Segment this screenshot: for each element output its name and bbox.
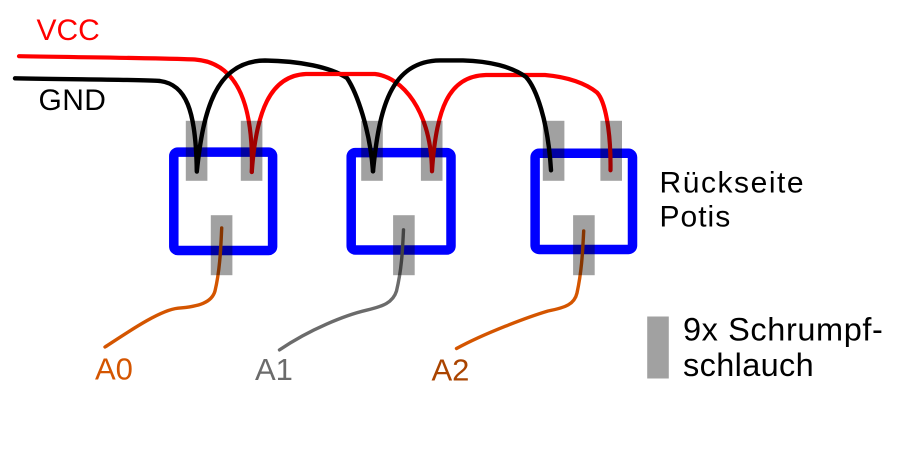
heat shrink P1 right pin <box>241 121 263 181</box>
heat shrink P1 wiper <box>211 215 233 275</box>
heat shrink P2 wiper <box>393 215 415 275</box>
potentiometer body P2 (blue square) <box>351 153 451 250</box>
potentiometer body P3 (blue square) <box>535 153 632 249</box>
wire GND jumper P2-P3 (black) <box>373 60 551 171</box>
wire A0 (orange, from P1 wiper down-left) <box>105 228 222 347</box>
heat shrink P1 left pin <box>186 121 208 181</box>
wire VCC jumper P1-P2 (red) <box>252 74 432 172</box>
potentiometer body P1 (blue square) <box>174 152 273 250</box>
heat shrink P3 left pin <box>543 121 565 181</box>
wire VCC jumper P2-P3 (red) <box>432 75 611 171</box>
svg-text:9x Schrumpf-: 9x Schrumpf- <box>683 312 883 348</box>
svg-text:schlauch: schlauch <box>683 347 814 383</box>
svg-text:VCC: VCC <box>37 14 100 47</box>
svg-text:A0: A0 <box>95 352 133 387</box>
wire A2 (orange, from P3 wiper down-left) <box>457 231 584 349</box>
heat shrink P2 left pin <box>361 121 383 181</box>
heat shrink P3 right pin <box>600 121 622 181</box>
wire A1 (gray, from P2 wiper down-left) <box>280 230 404 350</box>
heat shrink P2 right pin <box>421 121 443 181</box>
svg-text:A2: A2 <box>432 353 470 388</box>
heat shrink P3 wiper <box>573 215 595 275</box>
svg-text:GND: GND <box>39 84 107 117</box>
wire GND feed + jumper P1-P2 (black) <box>15 61 373 172</box>
svg-text:Potis: Potis <box>660 201 732 234</box>
legend swatch heat shrink <box>647 317 669 379</box>
wire VCC feed (red, from left edge down into P1 right pin) <box>19 56 252 172</box>
svg-text:A1: A1 <box>255 352 293 387</box>
svg-text:Rückseite: Rückseite <box>660 167 806 200</box>
